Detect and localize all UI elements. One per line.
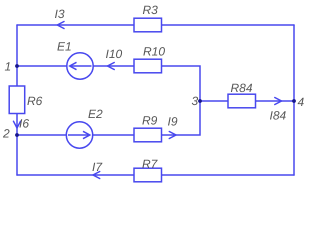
arrow I9 [169,132,176,139]
source E1 [67,53,93,79]
svg-text:E2: E2 [88,107,103,121]
node 4 junction dot [292,99,296,103]
wire top left segment [17,24,134,26]
resistor R6 [9,86,25,114]
wire left vertical upper [16,25,18,86]
svg-text:1: 1 [5,60,12,74]
node 3 junction dot [198,99,202,103]
node 2 junction dot [15,133,19,137]
wire top right segment [162,24,295,26]
svg-text:R7: R7 [142,157,159,171]
wire R84 to node4 [256,100,295,102]
arrow I10 [108,63,115,70]
svg-text:I9: I9 [168,115,178,129]
svg-text:R6: R6 [27,94,43,108]
wire E2 to R9 [93,134,134,136]
wire left vertical lower [16,114,18,176]
svg-text:R3: R3 [143,3,159,17]
svg-text:2: 2 [2,127,10,141]
svg-text:3: 3 [192,94,199,108]
svg-text:I3: I3 [55,7,65,21]
arrow I3 [57,22,64,29]
arrow I6 [14,121,21,128]
wire bottom right segment [162,174,295,176]
wire bottom left segment [17,174,134,176]
wire node3 to R84 [200,100,228,102]
resistor R7 [134,168,162,182]
svg-text:R84: R84 [231,81,253,95]
svg-text:I84: I84 [270,109,287,123]
wire right vertical [293,25,295,175]
wire E1 to R10 [93,65,134,67]
resistor R3 [134,18,162,32]
resistor R9 [134,128,162,142]
svg-text:I6: I6 [19,117,29,131]
source E2 [66,122,92,148]
svg-text:4: 4 [298,95,305,109]
node 1 junction dot [15,64,19,68]
svg-text:I10: I10 [106,47,123,61]
svg-text:I7: I7 [92,160,103,174]
resistor R10 [134,59,162,73]
svg-text:E1: E1 [57,40,72,54]
arrow I7 [93,172,100,179]
wire node2 to E2 [17,134,66,136]
svg-text:R9: R9 [142,114,158,128]
wire R9 to node3 vertical [162,101,201,135]
resistor R84 [228,94,256,108]
svg-text:R10: R10 [143,45,165,59]
wire node1 to E1 [17,65,67,67]
arrow I84 [275,98,282,105]
wire R10 to node3 vertical [162,66,201,101]
